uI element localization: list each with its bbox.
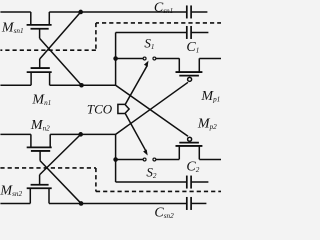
transistor Msn1 — [27, 12, 52, 38]
node dot bottom rail — [79, 201, 84, 206]
wire C1 — [116, 31, 187, 33]
transistor Msn2 — [27, 175, 52, 204]
transistor Mn1 — [27, 59, 52, 85]
node dot Mn2 rail — [78, 132, 83, 137]
dashed net — [0, 23, 221, 192]
arrowhead S1 — [144, 61, 149, 67]
svg-text:TCO: TCO — [87, 102, 113, 117]
wire dashed bottom vertical — [95, 168, 97, 192]
wire node1 vertical — [115, 32, 117, 85]
wire cross B2 Msn2 gate to Mn2 rail — [40, 134, 81, 174]
wire C2 — [116, 181, 187, 183]
wire node2 vertical — [115, 134, 117, 182]
capacitor Csn2 — [187, 197, 191, 210]
wire Dp2 node1 to Mp2 gate — [116, 85, 188, 136]
wire top rail left — [0, 11, 30, 13]
wire dashed top vertical — [95, 23, 97, 50]
arrowhead S2 — [143, 149, 148, 155]
switch S1 — [143, 57, 156, 60]
TCO arrow to S2 — [125, 114, 146, 152]
wire top rail mid — [49, 11, 186, 13]
wire dashed bottom right — [96, 190, 221, 192]
wire cross B Mn1 gate to top rail — [40, 12, 81, 59]
wire bottom rail — [0, 202, 30, 204]
capacitor Csn1 — [187, 5, 191, 18]
wire Mn1 rail — [0, 84, 31, 86]
TCO block symbol — [118, 104, 129, 113]
wire S2 — [116, 159, 144, 161]
wire top rail right stub — [191, 11, 207, 13]
transistor Mp1 — [176, 58, 203, 81]
transistor Mn2 — [27, 134, 52, 160]
capacitor C2 — [187, 176, 191, 189]
capacitor C1 — [187, 26, 191, 39]
node dot S1 — [113, 56, 118, 61]
wire Dp1 node2 to Mp1 gate — [116, 82, 188, 134]
TCO arrow to S1 — [125, 65, 147, 104]
wire cross A Msn1 gate to node — [40, 38, 82, 85]
node dot top rail — [78, 10, 83, 15]
switch S2 — [143, 158, 156, 161]
node dot S2 — [113, 157, 118, 162]
wire S1 — [116, 58, 144, 60]
node dot Mn1 rail — [79, 83, 84, 88]
wire dashed top right — [96, 22, 221, 24]
wire cross A2 Mn2 gate to bottom rail — [40, 161, 81, 204]
wire Mn2 rail — [0, 133, 31, 135]
wire dashed top left — [0, 49, 96, 51]
transistor Mp2 — [176, 137, 203, 159]
wire dashed bottom left — [0, 167, 96, 169]
